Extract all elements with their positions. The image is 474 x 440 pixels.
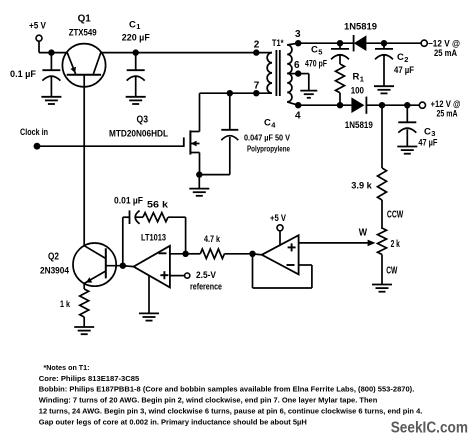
svg-text:Clock in: Clock in [20, 127, 48, 137]
svg-text:MTD20N06HDL: MTD20N06HDL [109, 129, 168, 139]
svg-text:+5 V: +5 V [29, 21, 46, 31]
svg-text:2.5-V: 2.5-V [196, 270, 216, 280]
svg-text:7: 7 [254, 81, 260, 92]
svg-text:1N5819: 1N5819 [345, 120, 373, 130]
svg-text:Winding: 7 turns of 20 AWG. Be: Winding: 7 turns of 20 AWG. Begin pin 2,… [39, 395, 378, 404]
svg-text:Q3: Q3 [137, 115, 149, 126]
svg-text:C: C [264, 118, 271, 129]
svg-text:W: W [359, 227, 367, 239]
svg-text:1N5819: 1N5819 [344, 22, 377, 32]
svg-text:56 k: 56 k [147, 200, 169, 210]
svg-text:470 pF: 470 pF [305, 59, 327, 69]
svg-text:ZTX549: ZTX549 [69, 28, 97, 38]
svg-text:C: C [397, 52, 404, 63]
svg-text:2 k: 2 k [391, 239, 401, 250]
svg-text:Core: Philips 813E187-3C85: Core: Philips 813E187-3C85 [39, 374, 140, 383]
svg-text:T1*: T1* [272, 38, 284, 48]
svg-text:3: 3 [295, 29, 301, 40]
svg-text:6: 6 [294, 60, 300, 71]
svg-text:CW: CW [386, 266, 398, 277]
svg-text:47 µF: 47 µF [394, 65, 414, 75]
svg-text:4: 4 [295, 111, 301, 122]
svg-text:*Notes on T1:: *Notes on T1: [44, 363, 90, 372]
svg-text:25 mA: 25 mA [437, 109, 458, 119]
svg-text:2N3904: 2N3904 [40, 266, 69, 276]
svg-text:220 µF: 220 µF [122, 33, 150, 43]
svg-text:+12 V @: +12 V @ [431, 99, 461, 109]
svg-text:C: C [311, 45, 318, 56]
svg-text:SeekIC.com: SeekIC.com [391, 420, 468, 437]
svg-text:LT1013: LT1013 [141, 233, 166, 243]
svg-text:reference: reference [190, 282, 222, 292]
svg-text:+5 V: +5 V [270, 213, 286, 223]
svg-text:CCW: CCW [387, 210, 404, 221]
svg-text:25 mA: 25 mA [434, 48, 457, 58]
svg-text:4.7 k: 4.7 k [204, 234, 221, 244]
svg-text:Q2: Q2 [48, 252, 59, 263]
svg-text:0.047 µF 50 V: 0.047 µF 50 V [244, 134, 291, 143]
svg-text:Gap outer legs of core at 0.00: Gap outer legs of core at 0.002 in. Prim… [39, 417, 307, 426]
svg-text:R: R [353, 72, 360, 83]
svg-text:C: C [129, 19, 136, 30]
svg-text:1: 1 [136, 22, 140, 31]
svg-text:3.9 k: 3.9 k [351, 181, 373, 191]
svg-text:2: 2 [254, 40, 260, 51]
svg-text:0.1 µF: 0.1 µF [10, 69, 36, 79]
svg-text:5: 5 [318, 47, 322, 56]
svg-text:2: 2 [404, 55, 408, 64]
svg-text:1 k: 1 k [60, 299, 71, 309]
svg-text:47 µF: 47 µF [418, 137, 437, 147]
svg-text:12 turns, 24 AWG. Begin pin 3,: 12 turns, 24 AWG. Begin pin 3, wind cloc… [39, 406, 423, 415]
svg-text:0.01 µF: 0.01 µF [114, 196, 143, 206]
svg-text:Q1: Q1 [78, 14, 92, 25]
svg-text:100: 100 [351, 86, 364, 96]
svg-text:1: 1 [360, 74, 364, 83]
svg-text:C: C [424, 126, 431, 137]
svg-text:Bobbin: Philips E187PBB1-8 (Co: Bobbin: Philips E187PBB1-8 (Core and bob… [39, 385, 414, 394]
svg-text:Polypropylene: Polypropylene [247, 145, 291, 154]
